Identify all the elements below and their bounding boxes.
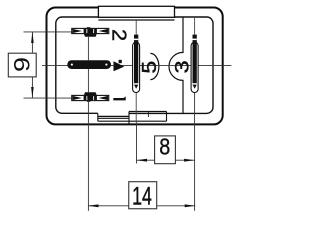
svg-text:2: 2 [107,29,130,41]
svg-text:3: 3 [170,60,193,73]
svg-text:9: 9 [11,57,35,72]
svg-text:5: 5 [137,61,160,74]
svg-text:8: 8 [159,134,170,160]
svg-text:14: 14 [132,182,152,211]
